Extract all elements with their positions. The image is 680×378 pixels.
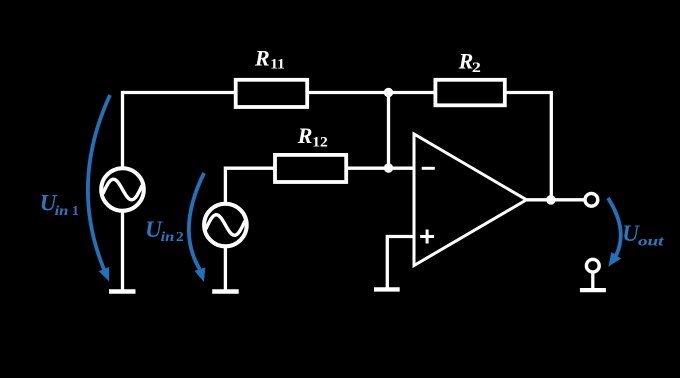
wire source2 top lead to R12 (225, 168, 275, 203)
wire top rail from source1 to R11 (123, 91, 236, 94)
ac source V1 (101, 168, 144, 211)
op-amp U1 (414, 134, 527, 266)
Uout arrow (608, 198, 621, 267)
wire noninverting input to ground (387, 237, 414, 288)
Uin2 arrow (189, 173, 205, 282)
wire R2 to feedback corner and down to output rail (505, 93, 552, 200)
output node junction (546, 195, 556, 205)
wire R12 to inverting input (346, 167, 414, 170)
resistor R12 (275, 123, 346, 182)
resistor R2 (435, 48, 504, 105)
wire R11 to R2 through node A (307, 91, 435, 94)
wire source2 bottom lead (224, 247, 227, 290)
ground for op-amp + input (374, 287, 400, 291)
Uin1 arrow (88, 95, 110, 282)
wire source1 bottom lead (121, 211, 124, 290)
output terminal lower (580, 259, 606, 290)
node A junction (384, 88, 393, 97)
wire op-amp output to terminal (526, 198, 584, 201)
output terminal upper (585, 193, 598, 206)
ac source V2 (204, 204, 247, 247)
node B junction (384, 163, 393, 172)
ground for V2 (212, 289, 239, 293)
ground for V1 (109, 289, 136, 293)
wire source1 top lead (121, 91, 124, 168)
resistor R11 (236, 45, 308, 107)
wire node A down to node B (387, 93, 390, 168)
